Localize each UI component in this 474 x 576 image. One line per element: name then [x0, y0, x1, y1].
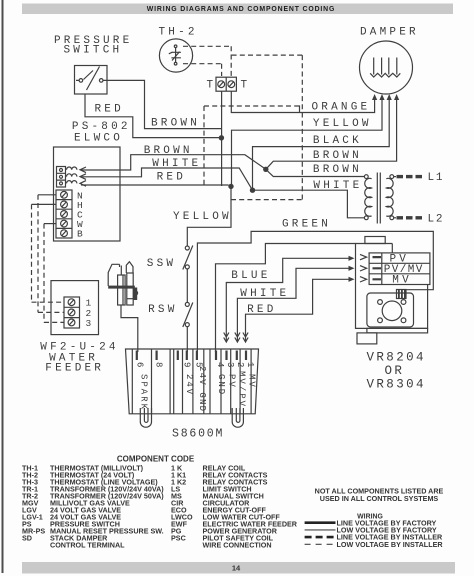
- svg-text:CONTROL TERMINAL: CONTROL TERMINAL: [50, 541, 125, 550]
- wire dashed TH-2 to T right terminal: [183, 46, 231, 76]
- coil wire arrowheads: [80, 167, 86, 186]
- svg-text:PSC: PSC: [171, 534, 186, 543]
- svg-text:MV: MV: [392, 275, 412, 287]
- gas valve terminal rows box: [369, 253, 430, 285]
- PS-802 ELWCO box: [54, 147, 121, 241]
- svg-text:T: T: [207, 80, 217, 92]
- valve foot: [357, 333, 377, 344]
- svg-text:TH-2: TH-2: [159, 27, 198, 39]
- svg-text:BLUE: BLUE: [231, 270, 270, 282]
- svg-text:L1: L1: [428, 172, 445, 184]
- svg-text:6: 6: [135, 362, 145, 369]
- module terminal dividers: [132, 349, 251, 414]
- svg-text:S8600M: S8600M: [172, 428, 224, 441]
- pressure switch contacts: [79, 79, 83, 83]
- svg-text:BLACK: BLACK: [313, 135, 362, 147]
- damper SD: [360, 41, 413, 94]
- water feeder WF2-U-24 box: [51, 281, 99, 335]
- wire dashed TH-2 to T left terminal: [183, 64, 222, 76]
- wire YELLOW to damper: [232, 97, 383, 187]
- wire WHITE (valve): [237, 268, 348, 332]
- svg-text:YELLOW: YELLOW: [173, 211, 232, 223]
- svg-text:GND: GND: [216, 374, 226, 396]
- wire W to feeder 3: [44, 223, 56, 225]
- wire dashed box top: [204, 105, 300, 107]
- svg-text:4: 4: [215, 362, 225, 369]
- svg-text:SWITCH: SWITCH: [64, 45, 123, 57]
- svg-text:SPARK: SPARK: [139, 374, 149, 411]
- legend line voltage by installer: [305, 536, 336, 539]
- wire to transformer bottom: [253, 190, 365, 218]
- svg-text:PV: PV: [227, 374, 237, 389]
- svg-text:3: 3: [86, 318, 93, 329]
- wire RED pressure switch to junction: [85, 94, 221, 138]
- wire dashed box left: [203, 106, 205, 186]
- svg-text:WHITE: WHITE: [240, 288, 289, 300]
- pressure switch PS box: [75, 66, 108, 95]
- svg-text:SD: SD: [22, 534, 32, 543]
- svg-text:WHITE: WHITE: [152, 158, 201, 170]
- terminal block T-T: [216, 77, 236, 91]
- svg-text:DAMPER: DAMPER: [360, 26, 419, 38]
- node dot red/yellow: [228, 184, 233, 189]
- wire BROWN to damper: [266, 99, 397, 169]
- switch SSW: [185, 246, 189, 250]
- svg-text:YELLOW: YELLOW: [313, 118, 372, 130]
- PS-802 coils: [67, 167, 77, 183]
- transformer TR coil left: [364, 175, 368, 179]
- switch RSW: [185, 302, 189, 306]
- page left edge line: [2, 0, 4, 573]
- wire dashed installer run (top): [232, 55, 303, 200]
- legend line voltage by factory: [305, 521, 336, 524]
- valve terminal dashes: [373, 257, 382, 279]
- wire RED (valve): [246, 279, 349, 332]
- svg-text:1: 1: [245, 362, 255, 369]
- svg-text:L2: L2: [428, 213, 445, 225]
- wire BLUE: [226, 258, 348, 332]
- svg-text:RED: RED: [157, 172, 186, 184]
- svg-text:2: 2: [235, 362, 245, 369]
- svg-text:USED IN ALL CONTROL SYSTEMS: USED IN ALL CONTROL SYSTEMS: [320, 494, 439, 503]
- valve actuator: [367, 293, 414, 327]
- PS-802 coil terminal strip: [57, 167, 66, 188]
- svg-text:VR8204: VR8204: [367, 351, 426, 365]
- svg-text:ELWCO: ELWCO: [74, 132, 123, 144]
- wire vertical from T-block left terminal down: [221, 91, 223, 186]
- svg-text:24V GND: 24V GND: [197, 366, 207, 412]
- svg-text:3: 3: [225, 362, 235, 369]
- wire GREEN loop: [197, 231, 433, 352]
- svg-text:GREEN: GREEN: [282, 219, 331, 231]
- arrows into module terminals: [224, 332, 248, 342]
- legend low voltage by installer: [305, 543, 336, 545]
- valve chevrons: [360, 254, 367, 282]
- wire thick dashed to L2: [394, 217, 396, 219]
- wire stair to valve body: [216, 244, 356, 353]
- wire igniter to SPARK: [121, 305, 138, 352]
- svg-text:VR8304: VR8304: [367, 378, 426, 392]
- svg-text:FEEDER: FEEDER: [45, 363, 104, 375]
- wire branch to transformer top: [266, 169, 365, 176]
- PS-802 terminal strip NHCWB: [56, 190, 72, 238]
- svg-text:RSW: RSW: [148, 304, 177, 316]
- wire H to feeder 1: [32, 203, 57, 205]
- svg-text:WIRE CONNECTION: WIRE CONNECTION: [203, 541, 272, 550]
- feeder terminal strip: [64, 297, 80, 328]
- pilot igniter assembly: [108, 264, 119, 286]
- svg-text:ORANGE: ORANGE: [312, 102, 371, 114]
- gas valve body outline: [356, 244, 428, 329]
- svg-text:OR: OR: [385, 364, 405, 378]
- svg-text:BROWN: BROWN: [144, 145, 193, 157]
- wire ORANGE from T-block right terminal to damper: [231, 91, 374, 112]
- svg-text:9: 9: [182, 362, 192, 369]
- damper arrows: [372, 94, 399, 100]
- wire jog to ORANGE: [299, 105, 301, 112]
- svg-text:14: 14: [232, 563, 241, 572]
- module S8600M outline: [126, 349, 259, 414]
- wire BLACK to damper: [253, 99, 390, 190]
- wire N to feeder 2: [38, 194, 56, 196]
- wire RED from coil 3: [81, 184, 229, 186]
- valve ground connector: [397, 290, 407, 299]
- wire dashed box bottom: [231, 199, 302, 201]
- node dot white/black: [250, 188, 255, 193]
- svg-text:B: B: [77, 229, 84, 240]
- svg-text:MV: MV: [247, 374, 257, 389]
- legend low voltage by factory: [305, 529, 336, 531]
- transformer TR coil right: [390, 175, 394, 179]
- transformer core: [377, 173, 380, 224]
- svg-text:LOW VOLTAGE BY INSTALLER: LOW VOLTAGE BY INSTALLER: [337, 540, 444, 549]
- svg-text:COMPONENT CODE: COMPONENT CODE: [117, 455, 195, 464]
- svg-text:RED: RED: [95, 104, 124, 116]
- svg-text:MV/PV: MV/PV: [237, 371, 247, 408]
- footer bar: [22, 562, 455, 574]
- svg-text:RED: RED: [247, 304, 276, 316]
- wire WHITE from coil 2: [81, 168, 253, 190]
- node junction dot: [219, 135, 224, 140]
- module foot right: [232, 408, 243, 427]
- wire BROWN from coil 1: [81, 155, 266, 170]
- svg-text:PS-802: PS-802: [72, 121, 131, 133]
- module terminal ticks: [137, 351, 246, 361]
- module foot left: [140, 408, 151, 427]
- svg-text:24V: 24V: [184, 374, 194, 396]
- svg-text:BROWN: BROWN: [313, 164, 362, 176]
- svg-text:8: 8: [154, 362, 164, 369]
- svg-text:SSW: SSW: [147, 258, 176, 270]
- svg-text:T: T: [241, 80, 251, 92]
- thermostat TH-2: [159, 39, 192, 72]
- wire pressure switch to T-block (BROWN): [103, 80, 222, 128]
- svg-text:BROWN: BROWN: [313, 150, 362, 162]
- wire SSW RSW vertical: [187, 186, 231, 352]
- table rows: [22, 464, 298, 550]
- node split dot: [263, 167, 268, 172]
- gas valve top tab: [365, 237, 385, 244]
- header bar: [22, 4, 453, 15]
- wire thick dashed to L1: [394, 176, 396, 178]
- valve base: [367, 328, 428, 333]
- svg-text:WIRING DIAGRAMS AND COMPONENT: WIRING DIAGRAMS AND COMPONENT CODING: [147, 6, 335, 13]
- arrows into valve: [349, 256, 355, 282]
- svg-text:BROWN: BROWN: [151, 118, 200, 130]
